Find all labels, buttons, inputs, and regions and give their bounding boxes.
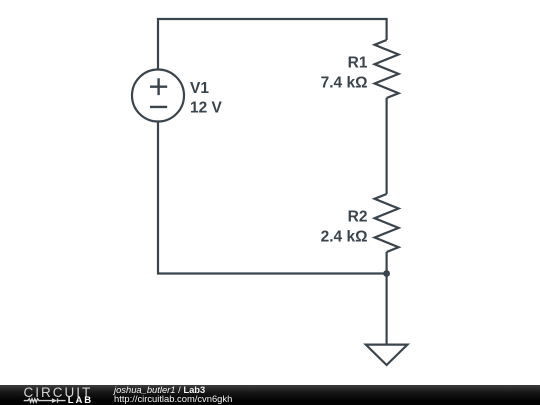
wire from R2 through junction down to ground <box>386 252 388 345</box>
footer url line <box>114 394 232 403</box>
wire between R1 and R2 <box>386 98 388 194</box>
svg-text:LAB: LAB <box>68 395 93 405</box>
svg-text:7.4 kΩ: 7.4 kΩ <box>321 75 368 92</box>
footer title line <box>114 385 205 394</box>
wire from V1 - terminal down and across bottom to junction <box>158 122 387 274</box>
resistor R1 zigzag <box>375 40 399 98</box>
wire from V1 + terminal up and across top to R1 <box>158 19 387 69</box>
footer bar <box>0 385 540 405</box>
junction dot at node between R2 and ground <box>383 270 390 277</box>
svg-text:V1: V1 <box>190 80 209 97</box>
V1 minus sign <box>150 106 167 108</box>
svg-text:R2: R2 <box>348 209 368 226</box>
V1 plus sign <box>150 78 167 95</box>
svg-text:12 V: 12 V <box>190 100 223 117</box>
svg-text:2.4 kΩ: 2.4 kΩ <box>321 229 368 246</box>
svg-text:R1: R1 <box>348 55 368 72</box>
CircuitLab logo <box>0 0 110 405</box>
logo resistor squiggle and diode <box>24 398 66 402</box>
ground symbol <box>366 345 408 365</box>
resistor R2 zigzag <box>375 194 399 252</box>
voltage source V1 circle <box>132 70 184 122</box>
